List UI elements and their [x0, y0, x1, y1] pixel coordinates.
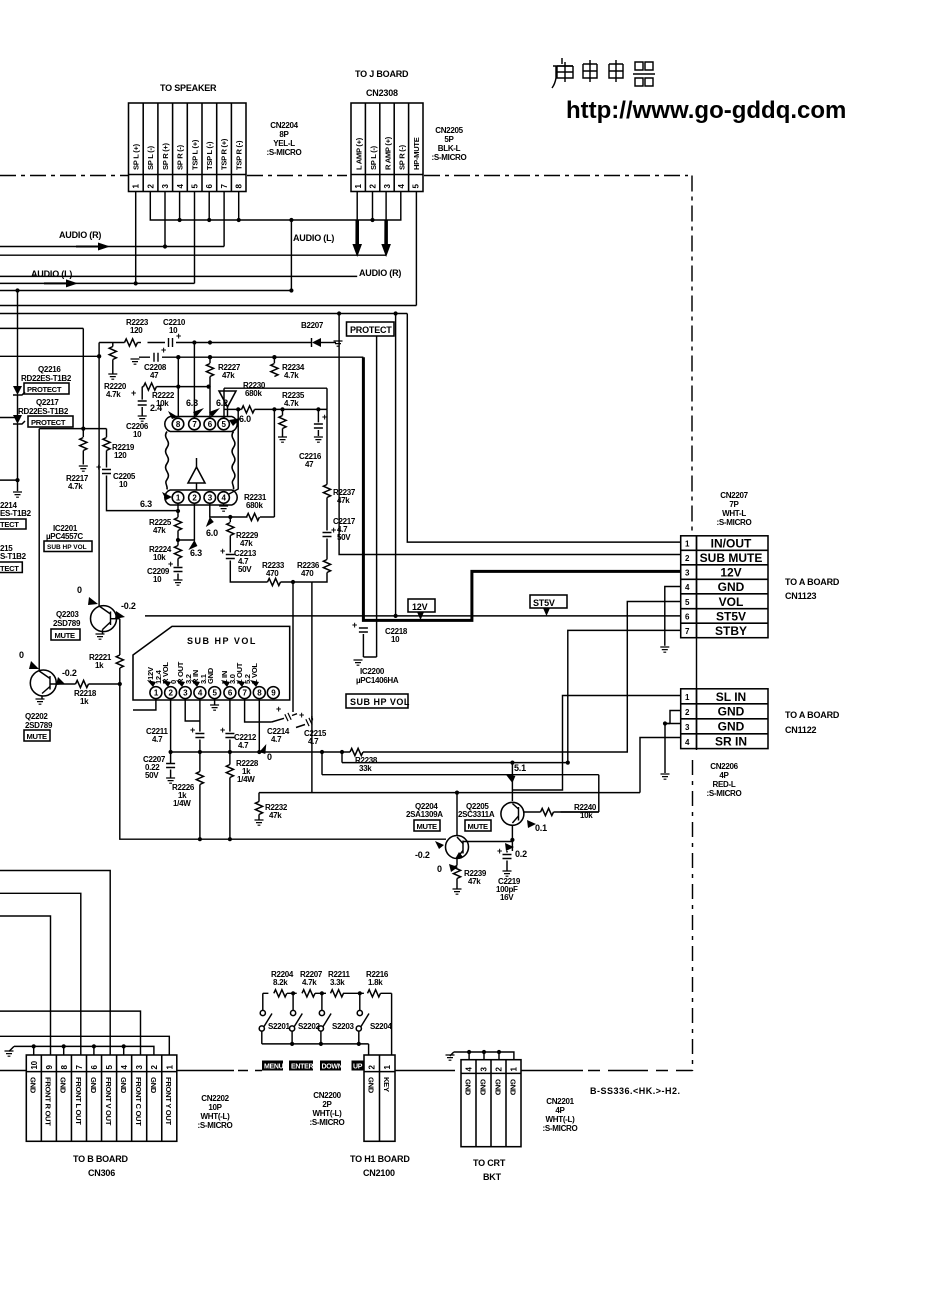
svg-text:2: 2 — [685, 708, 690, 717]
voltage arrow to pin6 — [209, 408, 220, 417]
svg-text:+: + — [190, 725, 195, 735]
Q2205 emitter down — [511, 825, 513, 851]
svg-text:10: 10 — [119, 480, 128, 489]
svg-text:10k: 10k — [153, 553, 166, 562]
svg-text:2P: 2P — [322, 1100, 332, 1109]
svg-text::S-MICRO: :S-MICRO — [310, 1118, 345, 1127]
board boundary bottom line — [0, 1070, 234, 1072]
svg-text:AUDIO (L): AUDIO (L) — [31, 269, 72, 279]
wire from PROTECT down (B2207 net) — [363, 336, 376, 657]
svg-text:4: 4 — [198, 689, 203, 698]
svg-text:5: 5 — [105, 1065, 114, 1070]
svg-text:1: 1 — [354, 184, 363, 189]
svg-text:IC2200: IC2200 — [360, 667, 385, 676]
svg-text:47k: 47k — [269, 811, 282, 820]
svg-text:MUTE: MUTE — [55, 631, 76, 640]
svg-text:1: 1 — [383, 1065, 392, 1070]
svg-text:4.7k: 4.7k — [302, 978, 317, 987]
svg-text:1: 1 — [510, 1067, 519, 1072]
svg-text:10: 10 — [153, 575, 162, 584]
connector CN2206 — [681, 689, 768, 749]
svg-text:AUDIO (R): AUDIO (R) — [59, 230, 101, 240]
svg-text:5.1: 5.1 — [514, 763, 526, 773]
switch S2202 — [292, 993, 294, 1010]
wire pin7 vertical — [193, 343, 195, 419]
svg-text:10P: 10P — [208, 1103, 222, 1112]
svg-text:2SA1309A: 2SA1309A — [406, 810, 443, 819]
svg-text:S-T1B2: S-T1B2 — [0, 552, 27, 561]
wire segment y=296.5 — [0, 305, 416, 307]
resistor R2237 column — [326, 409, 328, 484]
svg-text:SUB HP VOL: SUB HP VOL — [47, 544, 87, 551]
svg-text:0: 0 — [77, 585, 82, 595]
svg-text:B-SS336.<HK.>-H2.: B-SS336.<HK.>-H2. — [590, 1086, 681, 1096]
transistor Q2202 — [30, 670, 56, 696]
svg-text:SP R (-): SP R (-) — [398, 144, 407, 170]
svg-text:CN2201: CN2201 — [546, 1097, 574, 1106]
fat arrow from CN2308 pin3 R AMP — [385, 192, 387, 223]
wire pin2 column C2211 C2207 — [170, 699, 172, 752]
svg-text:3: 3 — [685, 723, 690, 732]
connector CN2308 TO J BOARD — [351, 69, 423, 192]
svg-text:16V: 16V — [500, 893, 514, 902]
svg-text:GND: GND — [206, 667, 215, 684]
svg-text:GND: GND — [508, 1079, 517, 1096]
svg-text:5: 5 — [222, 420, 227, 429]
svg-text:1k: 1k — [95, 661, 104, 670]
svg-text:CN2204: CN2204 — [270, 121, 298, 130]
svg-text:+: + — [276, 704, 281, 714]
svg-text:1/4W: 1/4W — [173, 799, 191, 808]
svg-text:GND: GND — [718, 580, 745, 594]
svg-text:ST5V: ST5V — [716, 609, 746, 623]
CN2201 gnd bus — [450, 1052, 514, 1060]
resistor R2236 symbol — [323, 560, 330, 573]
resistor R2217 — [80, 438, 87, 451]
svg-text:+: + — [497, 846, 502, 856]
svg-text:STBY: STBY — [715, 624, 747, 638]
svg-text:4.7k: 4.7k — [106, 390, 121, 399]
svg-text:2SC3311A: 2SC3311A — [458, 810, 495, 819]
svg-text:47: 47 — [305, 460, 314, 469]
svg-text:8.2k: 8.2k — [273, 978, 288, 987]
svg-text:MUTE: MUTE — [27, 732, 48, 741]
resistor R2219 — [106, 429, 108, 438]
header site text — [566, 97, 846, 124]
svg-text:4.7: 4.7 — [308, 737, 319, 746]
svg-text:3: 3 — [208, 494, 213, 503]
svg-text:2SD789: 2SD789 — [53, 619, 81, 628]
resistor R2227 — [209, 357, 211, 363]
svg-text:4.7k: 4.7k — [284, 399, 299, 408]
svg-text:GND: GND — [493, 1079, 502, 1096]
svg-text:IN/OUT: IN/OUT — [711, 537, 752, 551]
svg-text:µPC4557C: µPC4557C — [46, 532, 83, 541]
svg-text:4.7: 4.7 — [271, 735, 282, 744]
svg-text:YEL-L: YEL-L — [273, 139, 295, 148]
svg-text::S-MICRO: :S-MICRO — [432, 153, 467, 162]
svg-text:+: + — [161, 345, 166, 355]
pin4 ground — [223, 503, 225, 506]
capacitor C2219 — [503, 855, 512, 859]
svg-text:1: 1 — [132, 184, 141, 189]
wire CN2206 pin2/3 GND — [665, 711, 681, 774]
svg-text:4: 4 — [685, 583, 690, 592]
svg-text:8: 8 — [60, 1065, 69, 1070]
wire stair B riser — [322, 752, 599, 812]
board boundary right vertical dash line — [691, 176, 693, 536]
IC2201 wavy link right — [232, 432, 235, 490]
svg-text:4P: 4P — [719, 771, 729, 780]
svg-text:9: 9 — [45, 1065, 54, 1070]
wire IN/OUT top line — [0, 313, 407, 315]
svg-text:2: 2 — [368, 184, 377, 189]
svg-text:3: 3 — [135, 1065, 144, 1070]
switch S2203 — [321, 993, 323, 1010]
resistor R2218 — [76, 680, 89, 687]
svg-text:SP R (+): SP R (+) — [161, 142, 170, 170]
svg-text:6.3: 6.3 — [190, 548, 202, 558]
svg-text:AUDIO (R): AUDIO (R) — [359, 268, 401, 278]
svg-text:470: 470 — [301, 569, 314, 578]
resistor R2230 on line — [224, 408, 327, 410]
svg-text:6.3: 6.3 — [186, 398, 198, 408]
svg-text:Q2203: Q2203 — [56, 610, 79, 619]
svg-text:FRONT R OUT: FRONT R OUT — [44, 1077, 53, 1126]
wire line to CN2308 q1 — [0, 275, 357, 277]
svg-text:CN2202: CN2202 — [201, 1094, 229, 1103]
svg-text:4.7: 4.7 — [152, 735, 163, 744]
svg-text:FRONT Y OUT: FRONT Y OUT — [164, 1077, 173, 1126]
svg-text:2: 2 — [169, 689, 174, 698]
Q2205 base resistor R2240 — [524, 811, 541, 813]
voltage arrow to pin7 — [193, 408, 204, 417]
svg-text:CN1122: CN1122 — [785, 725, 817, 735]
svg-text:RD22ES-T1B2: RD22ES-T1B2 — [21, 374, 72, 383]
svg-text:-0.2: -0.2 — [415, 850, 430, 860]
wire pin4 riser to R2230 line — [229, 409, 238, 494]
svg-text:+: + — [331, 525, 336, 535]
svg-text:3: 3 — [383, 184, 392, 189]
svg-text:DOWN: DOWN — [322, 1064, 343, 1071]
svg-text:6.2: 6.2 — [216, 398, 228, 408]
wire riser x=395.6 — [395, 314, 397, 616]
svg-text:1: 1 — [165, 1065, 174, 1070]
svg-text::S-MICRO: :S-MICRO — [707, 789, 742, 798]
svg-text:9: 9 — [271, 689, 276, 698]
thick 12V rail — [180, 356, 364, 358]
svg-text:GND: GND — [29, 1077, 38, 1094]
connector CN2202 — [26, 1055, 177, 1141]
diode D1 (Q2216) — [17, 378, 19, 386]
svg-text:1: 1 — [685, 540, 690, 549]
svg-text::S-MICRO: :S-MICRO — [543, 1124, 578, 1133]
svg-text:MUTE: MUTE — [468, 822, 489, 831]
svg-text:10k: 10k — [580, 811, 593, 820]
thick 12V label — [408, 599, 435, 612]
wire R2221 column (box left edge) — [119, 619, 121, 655]
label CN2201 text — [543, 1097, 578, 1133]
resistor R2224 — [174, 546, 181, 559]
svg-text:4: 4 — [465, 1067, 474, 1072]
svg-text:8: 8 — [257, 689, 262, 698]
capacitor C2215 tilted — [306, 718, 312, 726]
svg-text:ST5V: ST5V — [533, 598, 555, 608]
capacitor C2207 below line — [166, 764, 175, 768]
svg-text:TO A BOARD: TO A BOARD — [785, 710, 840, 720]
svg-text:TSP L (+): TSP L (+) — [190, 139, 199, 170]
capacitor C2214 tilted — [285, 713, 291, 721]
wire SUB MUTE riser and line — [339, 314, 681, 555]
transistor Q2205 — [501, 802, 524, 825]
svg-text:47: 47 — [150, 371, 159, 380]
op-amp U1b triangle — [188, 467, 205, 483]
Q2203 emitter ground — [102, 630, 104, 635]
label UP black — [352, 1061, 364, 1071]
capacitor C2213 — [226, 555, 235, 559]
svg-text:6.0: 6.0 — [239, 414, 251, 424]
op-amp U1a pins 8 7 6 5 circles — [172, 418, 229, 430]
capacitor C2210 — [169, 338, 173, 347]
resistor R2235 below — [272, 407, 276, 411]
svg-text:S2202: S2202 — [298, 1022, 320, 1031]
svg-text:4.7k: 4.7k — [68, 482, 83, 491]
svg-text:2: 2 — [146, 184, 155, 189]
svg-text::S-MICRO: :S-MICRO — [267, 148, 302, 157]
svg-text:BKT: BKT — [483, 1172, 502, 1182]
connector CN2200 — [364, 1055, 395, 1141]
svg-text:B2207: B2207 — [301, 321, 324, 330]
label CN2207 text — [717, 491, 752, 527]
svg-text:47k: 47k — [240, 539, 253, 548]
label CN2206 text — [707, 762, 742, 798]
svg-text:SUB MUTE: SUB MUTE — [700, 551, 763, 565]
svg-text:SP L (+): SP L (+) — [132, 143, 141, 170]
svg-text:+: + — [352, 620, 357, 630]
svg-text:Q2217: Q2217 — [36, 398, 59, 407]
switch bottom rail — [262, 1044, 369, 1055]
board boundary top dash-dot line — [0, 175, 688, 177]
svg-text:WHT-L: WHT-L — [722, 509, 746, 518]
wire CN2207 pin4 GND — [665, 587, 681, 646]
svg-text:CN2100: CN2100 — [363, 1168, 395, 1178]
wire pin8 column to line — [258, 699, 260, 752]
nested L wires to CN2202 — [0, 871, 169, 1056]
voltage arrow to pin8 — [168, 411, 178, 419]
svg-text:MENU: MENU — [264, 1064, 284, 1071]
wire vertical x=291 — [290, 220, 292, 291]
svg-text:VOL: VOL — [719, 595, 744, 609]
svg-text:33k: 33k — [359, 764, 372, 773]
svg-text:+: + — [299, 710, 304, 720]
signal arrow on audio L line — [44, 279, 78, 287]
svg-text:5: 5 — [191, 184, 200, 189]
svg-text:GND: GND — [149, 1077, 158, 1094]
op-amp U1a triangle — [219, 391, 236, 407]
svg-text:+: + — [131, 388, 136, 398]
svg-text:SP R (-): SP R (-) — [176, 144, 185, 170]
svg-text:5: 5 — [412, 184, 421, 189]
svg-text:GND: GND — [119, 1077, 128, 1094]
svg-text:TO H1 BOARD: TO H1 BOARD — [350, 1154, 410, 1164]
svg-text:8: 8 — [176, 420, 181, 429]
svg-text:RED-L: RED-L — [713, 780, 736, 789]
resistor R2222 — [142, 386, 208, 388]
svg-text:47k: 47k — [222, 371, 235, 380]
label MENU black — [262, 1061, 283, 1071]
resistor R2231 — [230, 516, 274, 518]
svg-text:ENTER: ENTER — [291, 1064, 313, 1071]
svg-text:TECT: TECT — [0, 564, 19, 573]
svg-text:6.3: 6.3 — [140, 499, 152, 509]
wire pin2 to junction — [178, 503, 194, 540]
IC2200 rotated pin labels — [146, 661, 259, 684]
voltage arrow to pin5 right — [229, 418, 241, 426]
svg-text:TO J BOARD: TO J BOARD — [355, 69, 409, 79]
svg-text:4.7k: 4.7k — [284, 371, 299, 380]
svg-text:120: 120 — [130, 326, 143, 335]
wire C2208 branch — [139, 356, 180, 358]
capacitor C2205 — [102, 470, 111, 474]
connector CN2207 — [681, 536, 768, 638]
svg-text:50V: 50V — [145, 771, 159, 780]
svg-text:GND: GND — [89, 1077, 98, 1094]
wire R2217 top link — [39, 428, 106, 430]
svg-text:TSP L (-): TSP L (-) — [205, 141, 214, 170]
svg-text:R AMP (+): R AMP (+) — [383, 136, 392, 170]
transistor Q2204 — [446, 836, 469, 859]
capacitor C2216 — [317, 409, 319, 422]
svg-text:WHT(-L): WHT(-L) — [313, 1109, 343, 1118]
wire pin1 stub — [133, 699, 156, 710]
label ENTER black — [289, 1061, 313, 1071]
label DOWN black — [320, 1061, 341, 1071]
svg-text:L AMP (+): L AMP (+) — [355, 137, 364, 170]
svg-text:RD22ES-T1B2: RD22ES-T1B2 — [18, 407, 69, 416]
svg-text:TO CRT: TO CRT — [473, 1158, 506, 1168]
svg-text:WHT(-L): WHT(-L) — [201, 1112, 231, 1121]
svg-text:UP: UP — [353, 1064, 363, 1071]
wire left stub y=356.3 — [0, 355, 99, 357]
wire stair C to SR IN — [259, 738, 681, 793]
svg-text:CN1123: CN1123 — [785, 591, 817, 601]
junction dots on rail — [192, 340, 196, 344]
svg-text:FRONT L OUT: FRONT L OUT — [74, 1077, 83, 1125]
svg-text:WHT(-L): WHT(-L) — [546, 1115, 576, 1124]
Q2204 emitter arrow — [455, 852, 463, 859]
svg-text:TSP R (-): TSP R (-) — [234, 140, 243, 170]
svg-text:5: 5 — [685, 598, 690, 607]
svg-text:7: 7 — [243, 689, 248, 698]
label SUB HP VOL boxed — [346, 694, 408, 708]
wire C2215 link to stair C riser — [312, 716, 313, 719]
svg-text:SR IN: SR IN — [715, 734, 747, 748]
pin5 ground — [214, 699, 216, 705]
svg-text:7: 7 — [685, 627, 690, 636]
wire pin5 upper branch — [224, 388, 327, 418]
svg-text:FRONT C OUT: FRONT C OUT — [134, 1077, 143, 1126]
svg-text:1k: 1k — [80, 697, 89, 706]
wire CN2207 pin7 STBY riser — [568, 630, 681, 762]
svg-text:CN2207: CN2207 — [720, 491, 748, 500]
svg-text::S-MICRO: :S-MICRO — [717, 518, 752, 527]
svg-text:47k: 47k — [468, 877, 481, 886]
wire line y=294 — [0, 290, 291, 292]
svg-text:120: 120 — [114, 451, 127, 460]
wire pin3 down to R2229 node — [210, 503, 231, 517]
svg-text:1.8k: 1.8k — [368, 978, 383, 987]
svg-text:0.2: 0.2 — [515, 849, 527, 859]
svg-text:-0.2: -0.2 — [62, 668, 77, 678]
svg-text:AUDIO (L): AUDIO (L) — [293, 233, 334, 243]
svg-text:10: 10 — [391, 635, 400, 644]
svg-text:10: 10 — [30, 1060, 39, 1069]
svg-text:10: 10 — [133, 430, 142, 439]
svg-text:6: 6 — [228, 689, 233, 698]
resistor R2229 — [229, 517, 231, 522]
svg-text:CN2308: CN2308 — [366, 88, 398, 98]
signal arrow on audio R line — [76, 243, 110, 251]
thick pin8 feed — [177, 357, 179, 417]
wire pin7 column to C2214 — [245, 699, 272, 722]
svg-text:3: 3 — [685, 569, 690, 578]
svg-text:5P: 5P — [444, 135, 454, 144]
wire CN2206 pin1 SL IN — [512, 696, 680, 791]
svg-text:TO SPEAKER: TO SPEAKER — [160, 83, 217, 93]
svg-text:2SD789: 2SD789 — [25, 721, 53, 730]
svg-text:S2201: S2201 — [268, 1022, 290, 1031]
switch S2204 — [359, 993, 361, 1010]
svg-text:3: 3 — [480, 1067, 489, 1072]
svg-text:4.7: 4.7 — [238, 741, 249, 750]
IC2200 pin circles 1-9 — [150, 687, 279, 699]
IC2201 wavy link — [166, 432, 169, 490]
svg-text:10k: 10k — [156, 399, 169, 408]
svg-text:2: 2 — [150, 1065, 159, 1070]
svg-text:12V: 12V — [720, 566, 741, 580]
wire C2214 riser — [292, 582, 294, 712]
label CN2202 text — [198, 1094, 233, 1130]
svg-text:SL IN: SL IN — [716, 690, 746, 704]
svg-text:CN2205: CN2205 — [435, 126, 463, 135]
wire pin6 column C2212 — [229, 699, 231, 732]
connector CN2204 TO SPEAKER — [129, 83, 247, 192]
svg-text:BLK-L: BLK-L — [438, 144, 461, 153]
svg-text:1: 1 — [154, 689, 159, 698]
header CJK logo 广电电器 (drawn strokes) — [552, 58, 655, 88]
IC2201 stadium outline bottom row — [170, 490, 232, 505]
resistor R2226 below — [196, 772, 203, 785]
wire pin3 stub to audio R — [164, 192, 166, 247]
wire R2216 to KEY pin — [391, 993, 393, 1055]
wire audio R line — [0, 192, 224, 247]
svg-text:6: 6 — [685, 612, 690, 621]
svg-text:2: 2 — [685, 554, 690, 563]
svg-text:470: 470 — [266, 569, 279, 578]
svg-text:0.1: 0.1 — [535, 823, 547, 833]
svg-text:680k: 680k — [245, 389, 262, 398]
wire rail with R2223/C2210 — [99, 342, 311, 344]
svg-text:SP L (-): SP L (-) — [369, 145, 378, 170]
wire jog line minus bus pins 2,4,6,8 to CN2308 2,4 — [150, 192, 400, 221]
svg-text:3.3k: 3.3k — [330, 978, 345, 987]
IC2201 stadium outline top row — [170, 417, 232, 432]
connector CN2201 — [461, 1060, 521, 1147]
svg-text:2: 2 — [192, 494, 197, 503]
svg-text:µPC1406HA: µPC1406HA — [356, 676, 399, 685]
svg-text:GND: GND — [367, 1077, 376, 1094]
capacitor C2211 symbol on pin4 column — [199, 699, 201, 732]
